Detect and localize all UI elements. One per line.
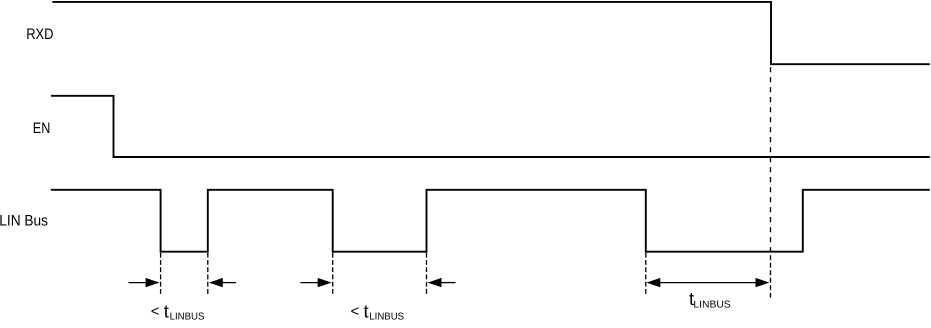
arrow 3 (right-pointing, into edge marker 3) xyxy=(300,278,331,287)
arrow 4 (left-pointing, into edge marker 4) xyxy=(428,278,456,287)
dashed edge marker 6b (below LIN low at x=770) xyxy=(770,255,772,298)
svg-text:t: t xyxy=(164,300,169,321)
svg-text:LINBUS: LINBUS xyxy=(369,311,404,322)
LIN Bus waveform xyxy=(51,190,930,252)
EN waveform xyxy=(51,96,930,157)
svg-text:t: t xyxy=(364,300,369,321)
svg-text:RXD: RXD xyxy=(26,26,53,43)
svg-text:<: < xyxy=(151,303,160,320)
label 3: tLINBUS xyxy=(689,288,731,311)
dashed edge marker 2 (LIN rise at x=207) xyxy=(207,253,209,294)
arrow 1 (right-pointing, into edge marker 1) xyxy=(129,278,160,287)
dashed edge marker 1 (LIN fall at x=160) xyxy=(160,253,162,294)
svg-text:LINBUS: LINBUS xyxy=(170,311,205,322)
dashed edge marker 6 (RXD fall at x=770, full height) xyxy=(770,67,772,252)
label 2: < tLINBUS xyxy=(351,300,405,322)
svg-text:LINBUS: LINBUS xyxy=(693,299,731,310)
arrow 5 (double-headed, between edge marker 5 and RXD edge marker) xyxy=(646,278,769,287)
dashed edge marker 5 (LIN fall at x=645) xyxy=(645,253,647,294)
svg-text:LIN Bus: LIN Bus xyxy=(0,212,48,229)
svg-text:<: < xyxy=(351,303,360,320)
RXD waveform xyxy=(52,2,929,64)
label 1: < tLINBUS xyxy=(151,300,205,322)
dashed edge marker 4 (LIN rise at x=425) xyxy=(426,253,428,294)
svg-text:EN: EN xyxy=(33,120,51,137)
arrow 2 (left-pointing, into edge marker 2) xyxy=(209,278,236,287)
dashed edge marker 3 (LIN fall at x=332) xyxy=(332,253,334,294)
